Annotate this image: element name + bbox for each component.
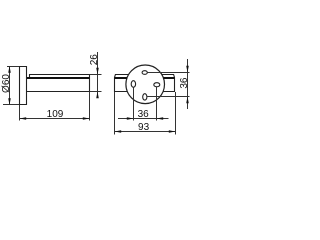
svg-text:109: 109 (47, 109, 64, 120)
dim 36 horizontal line (118, 118, 169, 120)
bar side view thick top band (27, 77, 90, 79)
dim 93 extension left (114, 92, 116, 135)
dim 36 horizontal arrow right (157, 117, 164, 120)
dim 36 vertical extension top (147, 72, 189, 74)
screw slot left (131, 81, 135, 88)
wall plate side view (19, 66, 27, 105)
svg-text:93: 93 (138, 122, 150, 133)
dim 26 arrow up (96, 92, 99, 99)
dim 93 arrow right (169, 130, 176, 133)
dim 36 vertical arrow bottom (186, 97, 189, 104)
dim O60 line (9, 66, 11, 105)
dim 36 vertical line (187, 59, 189, 109)
dim O60 arrow down (8, 98, 11, 105)
dim 109 arrow right (83, 117, 90, 120)
dim 26 arrow down (96, 68, 99, 75)
dim 36 horizontal extension left (133, 88, 135, 121)
dim 109 extension right (89, 92, 91, 121)
dim 26 line (97, 52, 99, 98)
dim 109 arrow left (20, 117, 27, 120)
svg-text:Ø60: Ø60 (1, 74, 12, 93)
bar side view bottom edge (27, 91, 90, 93)
dim 93 extension right (175, 92, 177, 135)
screw slot right (154, 83, 160, 87)
dim O60 extension top (7, 66, 19, 68)
dim 36 horizontal extension right (156, 87, 158, 121)
bar front view right thick band (163, 77, 174, 79)
bar front view left thick band (115, 77, 128, 79)
svg-text:26: 26 (89, 54, 100, 66)
bar front view left piece (115, 75, 129, 93)
screw slot bottom (143, 94, 147, 100)
dim O60 arrow up (8, 66, 11, 73)
dim 36 vertical extension bottom (147, 96, 190, 98)
svg-text:36: 36 (138, 109, 150, 120)
bar side view end cap (89, 74, 91, 92)
dim 26 extension bottom (90, 91, 102, 93)
dim 36 horizontal arrow left (127, 117, 134, 120)
front view circle (wall plate) (126, 65, 165, 104)
svg-text:36: 36 (179, 77, 190, 89)
bar side view top lip (30, 75, 90, 79)
bar front view right piece (162, 75, 175, 93)
dim 26 extension top (90, 74, 102, 76)
dim 93 line (115, 131, 176, 133)
dim 93 arrow left (115, 130, 122, 133)
dim 109 extension left (19, 105, 21, 121)
dim O60 extension bottom (3, 104, 19, 106)
dim 36 vertical arrow top (186, 66, 189, 73)
screw slot top (142, 71, 147, 75)
dim 109 line (20, 118, 90, 120)
